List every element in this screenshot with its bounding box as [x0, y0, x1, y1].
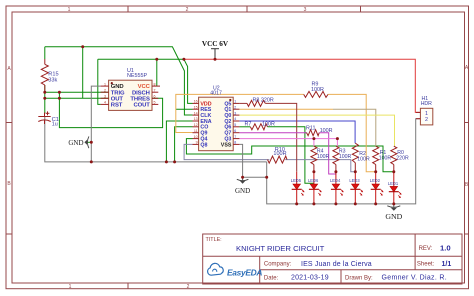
resistor R8 220R horizontal — [247, 100, 265, 106]
wire VCC rail — [184, 59, 421, 112]
wire R8 out to LED5 anode — [265, 103, 296, 171]
LED LED3 — [349, 172, 363, 204]
svg-text:3: 3 — [234, 111, 236, 115]
wire RST to VCC — [98, 59, 101, 104]
node U1 VCC tap — [155, 58, 158, 61]
svg-text:LED4: LED4 — [330, 178, 341, 183]
wire VCC green segment — [98, 58, 184, 60]
svg-text:2: 2 — [104, 88, 106, 92]
wire OUT/CLK top rail — [45, 47, 193, 115]
wire OUT row — [45, 97, 109, 99]
node LED1 anode — [392, 170, 395, 173]
LED LED5 — [291, 172, 305, 204]
node C1 top — [43, 97, 46, 100]
LED LED2 — [370, 172, 384, 204]
svg-text:HDR: HDR — [421, 101, 432, 107]
svg-text:11: 11 — [194, 129, 198, 133]
node GND bus left — [90, 160, 93, 163]
node LED2 anode — [374, 170, 377, 173]
svg-text:5: 5 — [154, 101, 156, 105]
svg-text:R11: R11 — [306, 126, 316, 132]
svg-text:Date:: Date: — [264, 275, 279, 281]
svg-text:100R: 100R — [273, 151, 286, 157]
vcc power symbol VCC 6V — [202, 40, 229, 59]
svg-text:2: 2 — [187, 284, 190, 290]
node VSS gnd — [241, 176, 244, 179]
svg-text:VCC 6V: VCC 6V — [202, 40, 229, 48]
wire TRIG row — [45, 91, 109, 93]
wire RES link — [176, 108, 193, 110]
svg-text:15: 15 — [194, 105, 198, 109]
wire Q3 stub to R4 — [313, 139, 315, 147]
wires blue — [239, 121, 355, 143]
svg-text:3: 3 — [304, 7, 307, 13]
node TRIG-R15 — [43, 91, 46, 94]
svg-text:8: 8 — [154, 82, 156, 86]
svg-text:100R: 100R — [320, 128, 333, 134]
resistor R11 100R horizontal — [307, 130, 320, 136]
wire Q1 row — [239, 108, 333, 110]
svg-text:100R: 100R — [357, 156, 370, 162]
wires green — [45, 47, 394, 183]
node VCC rail start — [182, 58, 185, 61]
node Q3-R3 branch — [336, 137, 339, 140]
resistor R7 100R horizontal — [250, 124, 267, 130]
node VCC symbol tap — [214, 58, 217, 61]
svg-text:DISCH: DISCH — [132, 90, 150, 96]
svg-text:1.0: 1.0 — [440, 243, 451, 252]
svg-text:COUT: COUT — [134, 103, 151, 109]
node LED2 cathode — [374, 202, 377, 205]
wire R9 out to LED2 — [328, 94, 376, 171]
svg-text:4: 4 — [104, 101, 106, 105]
LED LED4 — [330, 172, 344, 204]
wire Q1 slate tail to R1 — [333, 109, 376, 146]
svg-text:100R: 100R — [262, 121, 275, 127]
svg-text:Sheet:: Sheet: — [417, 262, 435, 268]
node 555 OUT junction — [81, 45, 84, 48]
resistor R0 220R vertical — [391, 146, 397, 172]
wire Q6 row — [239, 126, 250, 128]
wire R15 top stub — [44, 47, 46, 59]
resistor R4 100R vertical — [311, 146, 317, 172]
ground GND3 right — [385, 204, 402, 221]
svg-text:1u: 1u — [52, 122, 58, 128]
node LED4 cathode — [334, 202, 337, 205]
wires orange — [176, 94, 376, 171]
wire R10 out to LED3 anode — [285, 160, 355, 172]
capacitor C1 1u polarized — [38, 111, 50, 124]
wire U1 VCC pin8 riser — [156, 59, 158, 86]
LED LED1 — [388, 172, 402, 204]
svg-text:1: 1 — [69, 284, 72, 290]
svg-text:1: 1 — [425, 111, 428, 117]
svg-text:VCC: VCC — [138, 84, 151, 90]
wire VSS drop — [239, 144, 266, 177]
svg-text:NE555P: NE555P — [127, 73, 147, 79]
svg-text:5: 5 — [234, 123, 236, 127]
svg-text:RST: RST — [111, 103, 123, 109]
svg-text:1: 1 — [68, 7, 71, 13]
wire Q9 to R9 line — [176, 94, 304, 132]
svg-text:GND: GND — [385, 212, 402, 221]
wire R15 bottom to C1 — [44, 85, 46, 113]
wires gray gnd — [45, 86, 421, 204]
wire R11 out to LED4 anode — [319, 133, 336, 174]
wire gnd bus to cathode bus — [267, 119, 421, 204]
svg-text:2: 2 — [425, 117, 428, 123]
title block — [203, 234, 462, 284]
wire R11 left lead — [305, 132, 307, 134]
svg-text:6: 6 — [154, 95, 156, 99]
svg-text:TRIG: TRIG — [111, 90, 125, 96]
svg-text:R8 220R: R8 220R — [253, 98, 274, 104]
wire Q7 row to R11 — [239, 132, 306, 134]
node ENA gnd — [165, 160, 168, 163]
svg-text:7: 7 — [154, 88, 156, 92]
svg-text:IES Juan de la Cierva: IES Juan de la Cierva — [301, 261, 372, 268]
LED LED6 — [308, 172, 322, 204]
svg-text:16: 16 — [194, 100, 198, 104]
node LED6 cathode — [312, 202, 315, 205]
node gnd corner — [265, 176, 268, 179]
svg-text:14: 14 — [194, 111, 198, 115]
node CO gnd — [173, 160, 176, 163]
wire CO to gnd — [175, 127, 193, 162]
svg-text:GND: GND — [235, 187, 250, 195]
svg-text:33k: 33k — [48, 77, 57, 83]
svg-text:2: 2 — [186, 7, 189, 13]
svg-text:220R: 220R — [396, 155, 409, 161]
ground GND1 left — [68, 136, 91, 148]
ground GND2 middle — [235, 177, 250, 195]
connector H1 HDR — [416, 96, 433, 125]
svg-text:THRES: THRES — [130, 96, 150, 102]
wire Q6 row to LED6 anode — [268, 127, 314, 183]
svg-text:Q8: Q8 — [200, 142, 207, 148]
svg-text:2: 2 — [234, 105, 236, 109]
svg-text:KNIGHT RIDER CIRCUIT: KNIGHT RIDER CIRCUIT — [236, 244, 325, 253]
svg-text:GND: GND — [68, 139, 83, 147]
svg-text:12: 12 — [194, 123, 198, 127]
svg-text:LED1: LED1 — [388, 181, 399, 186]
svg-text:1: 1 — [104, 82, 106, 86]
svg-text:4017: 4017 — [210, 91, 222, 97]
wire Q2 row to R2 — [239, 121, 355, 143]
svg-text:LED2: LED2 — [370, 178, 381, 183]
wire junction drop to OUT — [82, 47, 84, 99]
svg-text:100R: 100R — [317, 154, 330, 160]
svg-text:100R: 100R — [339, 154, 352, 160]
wire C1 bottom + gnd bus — [45, 116, 267, 162]
resistor R2 100R vertical — [352, 143, 358, 172]
node LED3 anode — [354, 170, 357, 173]
svg-text:VSS: VSS — [221, 142, 232, 148]
wire U1 gnd drop — [91, 86, 100, 162]
svg-text:7: 7 — [234, 135, 236, 139]
svg-text:OUT: OUT — [111, 96, 124, 102]
node LED6 anode — [312, 170, 315, 173]
svg-text:REV:: REV: — [419, 246, 433, 252]
svg-text:13: 13 — [194, 117, 198, 121]
svg-text:LED6: LED6 — [308, 178, 319, 183]
svg-text:TITLE:: TITLE: — [206, 237, 222, 243]
resistor R10 100R horizontal — [268, 156, 288, 163]
svg-text:10: 10 — [194, 135, 198, 139]
node GND1 tap — [90, 141, 93, 144]
wire Q8 to R10 — [184, 144, 269, 159]
svg-text:6: 6 — [234, 129, 236, 133]
node LED3 cathode — [354, 202, 357, 205]
svg-text:Company:: Company: — [264, 262, 292, 268]
wires red vcc — [184, 59, 421, 112]
svg-text:8: 8 — [234, 141, 236, 145]
svg-text:4: 4 — [234, 117, 236, 121]
svg-text:GND: GND — [111, 84, 124, 90]
resistor R9 100R horizontal — [304, 91, 328, 97]
svg-text:2021-03-19: 2021-03-19 — [291, 275, 329, 282]
svg-text:LED5: LED5 — [291, 178, 302, 183]
svg-text:LED3: LED3 — [349, 178, 360, 183]
node LED5 cathode — [295, 202, 298, 205]
svg-text:1/1: 1/1 — [442, 261, 452, 268]
wire VDD link — [184, 59, 193, 103]
node THRES branch — [58, 97, 61, 100]
resistor R3 100R vertical — [333, 146, 339, 172]
wire Q3 row to R3 — [239, 139, 337, 147]
svg-text:100R: 100R — [379, 155, 392, 161]
svg-text:Drawn By:: Drawn By: — [345, 275, 373, 281]
svg-text:R7: R7 — [245, 121, 252, 127]
resistor R15 33k — [41, 59, 48, 92]
node TRIG-THRES — [58, 91, 61, 94]
svg-text:Gemner V. Diaz. R.: Gemner V. Diaz. R. — [382, 275, 447, 282]
wire THRES loop — [59, 92, 162, 127]
wire Q5 row to R8 — [239, 102, 247, 104]
resistor R1 100R vertical — [373, 146, 379, 172]
svg-text:9: 9 — [196, 141, 198, 145]
node Q3-R4 branch — [312, 137, 315, 140]
node LED1 cathode — [392, 202, 395, 205]
wire Q4 long green — [186, 139, 393, 172]
node LED4 anode — [334, 170, 337, 173]
op-amp U2 4017 counter — [193, 86, 240, 151]
op-amp U1 NE555P timer — [101, 68, 160, 111]
svg-text:1: 1 — [234, 100, 236, 104]
wire ENA to gnd — [166, 121, 192, 162]
EasyEDA logo — [208, 263, 263, 277]
wire Q0 row — [239, 115, 394, 146]
svg-text:EasyEDA: EasyEDA — [227, 267, 262, 277]
wires yellow — [239, 115, 394, 146]
svg-text:3: 3 — [104, 95, 106, 99]
svg-text:100R: 100R — [311, 87, 324, 93]
